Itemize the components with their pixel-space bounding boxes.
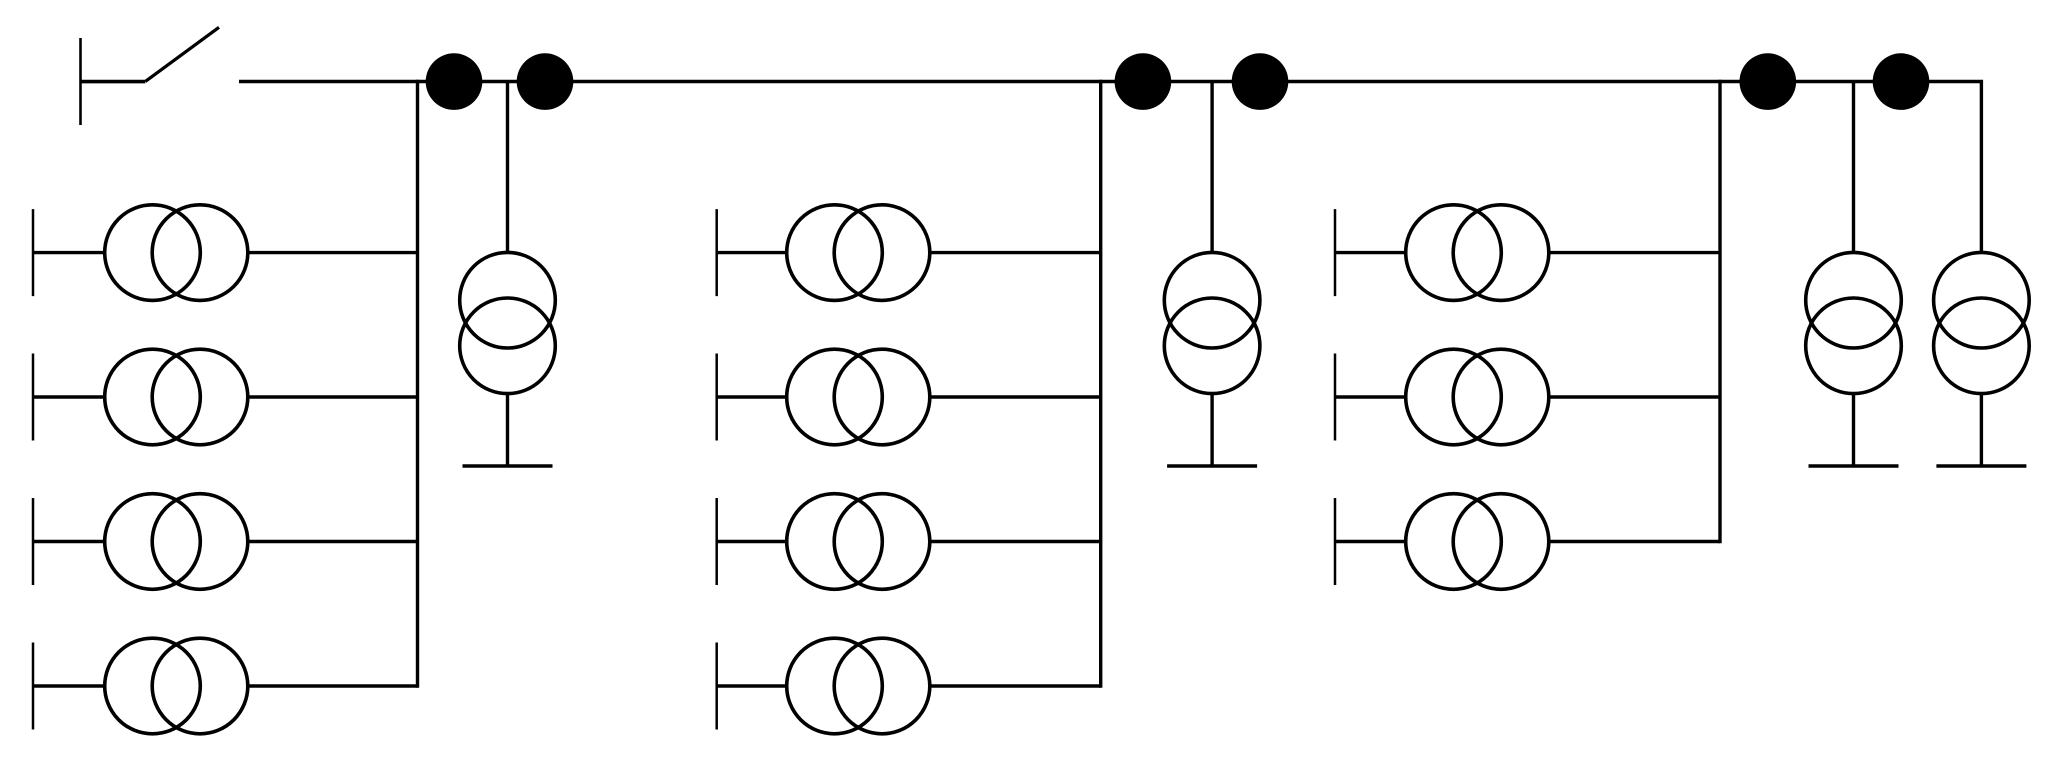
- transformer T3: left terminal bar: [32, 498, 35, 585]
- wire: terminal to transformer T6: [717, 395, 787, 398]
- wire: transformer T10 to collector riser: [1549, 395, 1720, 398]
- junction node N4 (filled bus dot): [1232, 53, 1289, 110]
- wire: transformer T1 to collector riser: [248, 251, 418, 254]
- wire: transformer T7 to collector riser: [930, 540, 1101, 543]
- transformer T7: primary winding: [787, 494, 883, 590]
- ground symbol under GT1: [463, 464, 553, 468]
- wire: drop from bus to grounding transformer GT3: [1852, 82, 1855, 253]
- transformer T11: primary winding: [1406, 494, 1502, 590]
- wire: GT3 to ground: [1852, 394, 1855, 466]
- wire: transformer T2 to collector riser: [248, 395, 418, 398]
- transformer T11: left terminal bar: [1334, 498, 1337, 585]
- transformer T10: primary winding: [1406, 349, 1502, 445]
- transformer T8: primary winding: [787, 638, 883, 734]
- transformer T8: secondary winding: [834, 638, 930, 734]
- transformer T1: primary winding: [105, 205, 201, 301]
- wire: main horizontal bus: [239, 82, 1981, 253]
- transformer T6: left terminal bar: [715, 354, 718, 441]
- wire: transformer T9 to collector riser: [1549, 251, 1720, 254]
- transformer T9: left terminal bar: [1334, 209, 1337, 296]
- junction node N1 (filled bus dot): [426, 53, 483, 110]
- transformer T9: secondary winding: [1453, 205, 1549, 301]
- wire: GT2 to ground: [1210, 394, 1213, 466]
- transformer T7: left terminal bar: [715, 498, 718, 585]
- wire: terminal to transformer T1: [33, 251, 105, 254]
- disconnector switch SW1: open blade: [145, 27, 219, 81]
- transformer T6: primary winding: [787, 349, 883, 445]
- wire: terminal to transformer T10: [1335, 395, 1406, 398]
- wire: terminal to transformer T9: [1335, 251, 1406, 254]
- transformer T3: primary winding: [105, 494, 201, 590]
- wire: terminal to transformer T3: [33, 540, 105, 543]
- grounding transformer GT1: upper winding: [460, 252, 556, 348]
- junction node N3 (filled bus dot): [1115, 53, 1172, 110]
- disconnector switch SW1: hinge wire: [81, 80, 146, 84]
- grounding transformer GT1: lower winding: [460, 298, 556, 394]
- transformer T9: primary winding: [1406, 205, 1502, 301]
- transformer T4: secondary winding: [152, 638, 248, 734]
- grounding transformer GT3: lower winding: [1806, 298, 1902, 394]
- wire: GT1 to ground: [506, 394, 509, 466]
- transformer T2: left terminal bar: [32, 354, 35, 441]
- wire: drop from bus to grounding transformer GT1: [506, 82, 509, 253]
- transformer T7: secondary winding: [834, 494, 930, 590]
- wire: drop from bus to grounding transformer GT2: [1210, 82, 1213, 253]
- transformer T6: secondary winding: [834, 349, 930, 445]
- transformer T1: secondary winding: [152, 205, 248, 301]
- grounding transformer GT3: upper winding: [1806, 252, 1902, 348]
- junction node N2 (filled bus dot): [517, 53, 574, 110]
- transformer T5: primary winding: [787, 205, 883, 301]
- transformer T10: secondary winding: [1453, 349, 1549, 445]
- junction node N5 (filled bus dot): [1740, 53, 1797, 110]
- grounding transformer GT2: upper winding: [1164, 252, 1260, 348]
- transformer T8: left terminal bar: [715, 643, 718, 730]
- wire: transformer T3 to collector riser: [248, 540, 418, 543]
- wire: terminal to transformer T11: [1335, 540, 1406, 543]
- ground symbol under GT4: [1936, 464, 2026, 468]
- wire: transformer T5 to collector riser: [930, 251, 1101, 254]
- grounding transformer GT4: lower winding: [1934, 298, 2030, 394]
- wire: transformer T6 to collector riser: [930, 395, 1101, 398]
- transformer T2: primary winding: [105, 349, 201, 445]
- wire: transformer T11 to collector riser: [1549, 540, 1720, 543]
- transformer T10: left terminal bar: [1334, 354, 1337, 441]
- transformer T5: left terminal bar: [715, 209, 718, 296]
- grounding transformer GT2: lower winding: [1164, 298, 1260, 394]
- wire: terminal to transformer T2: [33, 395, 105, 398]
- wire: feeder collector riser, right group: [1718, 82, 1721, 542]
- grounding transformer GT4: upper winding: [1934, 252, 2030, 348]
- disconnector switch SW1: left terminal bar: [79, 38, 82, 125]
- wire: terminal to transformer T5: [717, 251, 787, 254]
- wire: terminal to transformer T8: [717, 684, 787, 687]
- wire: terminal to transformer T4: [33, 684, 105, 687]
- wire: transformer T4 to collector riser: [248, 684, 418, 687]
- wire: feeder collector riser, middle group: [1099, 82, 1102, 687]
- ground symbol under GT2: [1167, 464, 1257, 468]
- transformer T2: secondary winding: [152, 349, 248, 445]
- transformer T3: secondary winding: [152, 494, 248, 590]
- junction node N6 (filled bus dot): [1873, 53, 1930, 110]
- wire: terminal to transformer T7: [717, 540, 787, 543]
- transformer T1: left terminal bar: [32, 209, 35, 296]
- transformer T11: secondary winding: [1453, 494, 1549, 590]
- transformer T4: left terminal bar: [32, 643, 35, 730]
- transformer T5: secondary winding: [834, 205, 930, 301]
- wire: GT4 to ground: [1980, 394, 1983, 466]
- transformer T4: primary winding: [105, 638, 201, 734]
- wire: transformer T8 to collector riser: [930, 684, 1101, 687]
- wire: feeder collector riser, left group: [416, 82, 419, 687]
- ground symbol under GT3: [1809, 464, 1899, 468]
